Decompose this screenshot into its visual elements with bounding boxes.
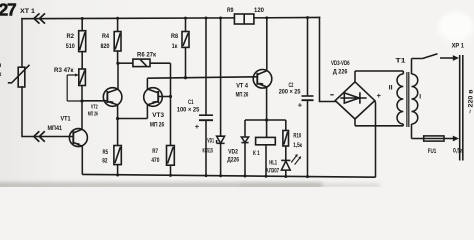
svg-text:VT3: VT3: [152, 112, 164, 119]
resistor R2: [79, 31, 86, 52]
bridge VD3-VD6: [335, 82, 375, 119]
svg-text:R5: R5: [103, 149, 109, 156]
svg-text:Д 226: Д 226: [333, 68, 348, 75]
transformer T1 winding I: [412, 74, 418, 124]
wire winding I bottom to fuse: [412, 124, 454, 139]
relay contact K1.1: [412, 59, 423, 75]
connector XT1 lower contact: [34, 131, 45, 141]
transformer T1 core: [407, 72, 409, 127]
svg-text:VD3-VD6: VD3-VD6: [331, 60, 350, 67]
svg-text:МП 26: МП 26: [150, 121, 165, 128]
wire rail right end down to bridge: [320, 17, 336, 101]
wire left sensor drop: [22, 19, 73, 137]
svg-text:R9: R9: [227, 7, 234, 14]
wire VT2 collector: [117, 63, 119, 89]
wire top rail: [22, 17, 320, 18]
wire VT2 emitter: [118, 105, 148, 119]
svg-text:I: I: [419, 94, 421, 101]
resistor R6: [118, 62, 133, 64]
svg-text:С1: С1: [188, 99, 194, 106]
svg-text:82: 82: [102, 158, 108, 165]
wire bottom rail: [82, 174, 375, 177]
fuse FU1: [424, 136, 444, 141]
wire R4: [117, 18, 119, 63]
wire bridge bottom to winding II bottom: [355, 119, 403, 126]
svg-text:510: 510: [66, 43, 75, 50]
zener VD1: [220, 18, 222, 176]
svg-text:м: м: [0, 62, 2, 69]
svg-text:FU1: FU1: [428, 148, 437, 155]
wire R3 bottom: [81, 86, 83, 102]
svg-text:R8: R8: [171, 33, 178, 40]
wire VT3 collector: [146, 78, 148, 89]
svg-text:ХР 1: ХР 1: [452, 43, 465, 50]
wire VT3 emitter: [146, 105, 148, 119]
svg-text:VT1: VT1: [61, 116, 71, 123]
LED HL1: [281, 160, 290, 170]
resistor R9: [234, 14, 254, 24]
resistor R10: [267, 120, 286, 160]
svg-text:КС515: КС515: [203, 148, 214, 154]
svg-text:VT 4: VT 4: [236, 83, 248, 90]
wire R8: [185, 18, 187, 78]
diode VD2: [245, 120, 267, 176]
wire VT3 base: [158, 96, 170, 98]
potentiometer R3: [79, 69, 86, 86]
node relay: [265, 118, 268, 121]
svg-text:200 × 25: 200 × 25: [279, 88, 301, 95]
connector XT1 top contact: [34, 13, 45, 23]
wire R7 bottom: [170, 165, 172, 175]
svg-text:R2: R2: [67, 33, 75, 40]
wire VT4 collector: [266, 18, 268, 71]
wire node to VT2 base: [82, 100, 108, 102]
svg-text:1к: 1к: [172, 43, 178, 50]
resistor R4: [114, 32, 121, 52]
potentiometer R3 wiper: [67, 75, 82, 101]
svg-text:+: +: [195, 122, 200, 131]
svg-text:МП 26: МП 26: [88, 112, 99, 118]
svg-text:VD1: VD1: [207, 138, 214, 144]
wire VT1 emitter to rail: [81, 146, 83, 174]
svg-text:VT2: VT2: [91, 105, 98, 111]
svg-text:R10: R10: [293, 133, 301, 139]
svg-text:Д226: Д226: [227, 158, 239, 164]
wire R5: [117, 119, 119, 176]
node emitters R5: [116, 117, 119, 120]
svg-text:К 1: К 1: [253, 150, 260, 157]
transistor VT1: [69, 129, 87, 147]
svg-text:820: 820: [101, 43, 110, 50]
svg-text:II: II: [389, 85, 393, 92]
capacitor C1: [205, 18, 207, 176]
wire bridge plus down to rail: [374, 101, 377, 178]
svg-text:120: 120: [254, 7, 264, 14]
node R2 top: [81, 17, 84, 20]
svg-text:R4: R4: [102, 33, 109, 40]
node R8 bottom: [184, 76, 187, 79]
svg-text:100 × 25: 100 × 25: [177, 107, 200, 114]
wire VT4 emitter: [266, 87, 268, 120]
wire bridge top to winding II: [355, 71, 403, 82]
svg-text:+: +: [377, 91, 382, 100]
svg-text:МП41: МП41: [48, 125, 63, 132]
transformer T1 winding II: [397, 74, 403, 124]
svg-text:~ 220 в: ~ 220 в: [468, 90, 474, 114]
node VT2 collector R6: [116, 62, 119, 65]
wire R2 to R3: [81, 18, 83, 69]
svg-text:АЛ307: АЛ307: [266, 169, 280, 175]
svg-text:R6 27к: R6 27к: [137, 52, 157, 59]
node A base VT2: [80, 99, 83, 102]
resistor R5: [114, 146, 121, 165]
svg-text:ХТ 1: ХТ 1: [20, 8, 35, 15]
thermistor R1: [8, 65, 30, 87]
wire contact to plug XP1: [440, 57, 454, 59]
wire VT1 collector: [81, 101, 83, 129]
transistor VT3: [144, 88, 163, 107]
resistor R7: [167, 146, 175, 166]
transistor VT4: [253, 70, 272, 89]
svg-text:470: 470: [151, 157, 159, 164]
svg-text:R7: R7: [152, 148, 158, 155]
scan smudge top right: [438, 12, 474, 42]
svg-text:27: 27: [0, 0, 16, 20]
capacitor C2: [307, 18, 309, 177]
transistor VT2: [103, 88, 122, 107]
svg-text:0,5а: 0,5а: [453, 148, 463, 155]
relay K1: [265, 120, 268, 176]
scan shadow bottom: [0, 183, 322, 189]
svg-text:1,5к: 1,5к: [293, 143, 302, 149]
svg-text:R3 47к: R3 47к: [54, 67, 74, 74]
resistor R8: [182, 32, 189, 48]
svg-text:HL1: HL1: [269, 160, 277, 166]
svg-text:+: +: [298, 100, 303, 109]
svg-text:МП 26: МП 26: [236, 92, 249, 98]
wire VT3 collector to VT4 base: [147, 77, 257, 78]
node VT3 base: [169, 95, 172, 98]
svg-text:VD2: VD2: [228, 150, 238, 156]
svg-text:Т1: Т1: [396, 58, 406, 65]
wire R6 to VT3 base and R7: [150, 63, 171, 145]
plug XP1: [460, 55, 463, 161]
